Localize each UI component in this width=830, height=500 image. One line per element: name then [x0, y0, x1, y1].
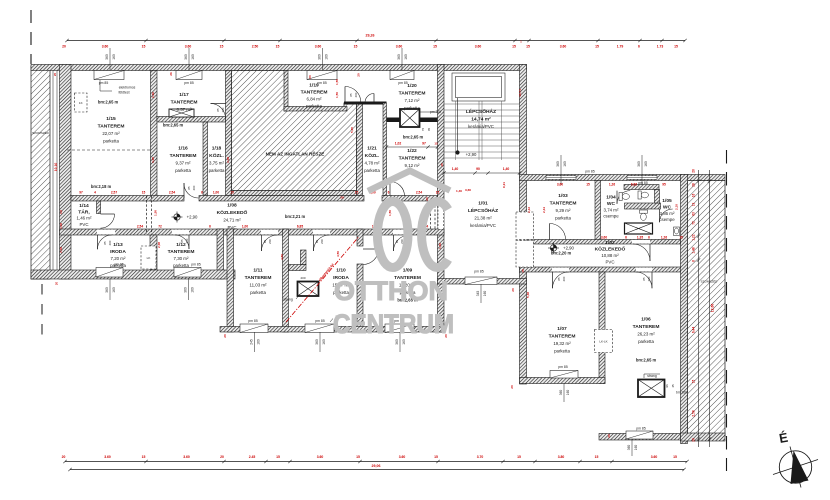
- door size label nem: [349, 92, 358, 97]
- svg-text:200: 200: [300, 276, 305, 280]
- wall 1/10 - 1/09 partition lower: [357, 264, 363, 332]
- svg-text:parketta: parketta: [555, 216, 571, 221]
- door WC 1/04: [617, 191, 630, 204]
- svg-text:CENTRUM: CENTRUM: [333, 309, 454, 339]
- dimension numbers top chain: [62, 40, 678, 49]
- svg-text:1/10: 1/10: [336, 268, 346, 274]
- window dim 1/03: [556, 155, 567, 185]
- red dims above corridor top wall: [79, 190, 439, 194]
- door size label 1/07: [557, 276, 566, 281]
- svg-text:2,58: 2,58: [692, 410, 696, 416]
- svg-text:2,10: 2,10: [675, 204, 679, 210]
- svg-text:KÖZL.: KÖZL.: [209, 152, 224, 159]
- svg-text:TANTEREM: TANTEREM: [301, 90, 328, 96]
- svg-text:3.60: 3.60: [396, 44, 403, 48]
- svg-text:LK: LK: [147, 256, 151, 260]
- svg-text:20: 20: [53, 73, 57, 77]
- door size label 1/09: [395, 239, 404, 244]
- wall stub alcove 1/10 vertical: [301, 250, 307, 265]
- svg-text:parketta: parketta: [110, 263, 126, 268]
- svg-text:1,36: 1,36: [438, 243, 442, 249]
- watermark logo O: [377, 202, 408, 268]
- svg-text:3.60: 3.60: [104, 455, 111, 459]
- svg-text:6,86: 6,86: [631, 182, 637, 186]
- property boundary line right: [726, 150, 728, 471]
- svg-text:parketta: parketta: [554, 349, 570, 354]
- svg-text:160: 160: [402, 339, 406, 345]
- door size label 1/16: [187, 185, 196, 190]
- svg-text:bm:2,65 m: bm:2,65 m: [163, 123, 184, 128]
- svg-text:1/14: 1/14: [79, 203, 89, 209]
- svg-text:160: 160: [566, 390, 570, 396]
- window 1/17 top: [176, 71, 202, 80]
- svg-text:7,12 m²: 7,12 m²: [405, 98, 420, 103]
- wall WC partition vertical: [655, 190, 660, 204]
- door size label tar: [103, 240, 112, 245]
- wall corridor 1/02 top: [527, 240, 681, 245]
- svg-text:20: 20: [425, 197, 429, 201]
- svg-text:OTTHON: OTTHON: [334, 276, 448, 306]
- svg-text:6,44: 6,44: [692, 327, 696, 333]
- svg-text:3.60: 3.60: [102, 44, 109, 48]
- svg-text:1/20: 1/20: [407, 83, 417, 89]
- svg-text:85: 85: [642, 277, 646, 281]
- assorted red dimension texts: [151, 72, 679, 438]
- window 1/12 bottom: [174, 268, 201, 278]
- svg-text:pm 85: pm 85: [474, 270, 484, 274]
- dashed line room 1/15: [67, 149, 150, 151]
- north arrow: [773, 430, 818, 488]
- svg-text:1,00: 1,00: [213, 190, 219, 194]
- svg-text:pm 200: pm 200: [430, 110, 441, 114]
- svg-text:76: 76: [421, 128, 425, 132]
- dimension chain top line: [65, 39, 686, 42]
- wall corridor 1/08 top segment c: [382, 196, 438, 202]
- window 1/07 bottom: [550, 371, 578, 379]
- svg-text:20: 20: [357, 73, 361, 77]
- svg-text:TANTEREM: TANTEREM: [549, 334, 576, 340]
- window dim 1/20: [397, 48, 408, 71]
- svg-text:360: 360: [397, 54, 401, 60]
- svg-text:85: 85: [349, 93, 353, 97]
- svg-text:elektromos: elektromos: [119, 86, 136, 90]
- room label 1/16 TANTEREM: [170, 146, 197, 174]
- svg-text:TANTEREM: TANTEREM: [399, 91, 426, 97]
- svg-text:20: 20: [308, 75, 312, 79]
- svg-text:20: 20: [62, 455, 66, 459]
- wall WC partition upper: [624, 185, 659, 190]
- wall exterior bottom middle section: [220, 327, 444, 333]
- svg-text:1/07: 1/07: [557, 326, 567, 332]
- svg-text:5,38: 5,38: [526, 292, 530, 298]
- svg-text:3.60: 3.60: [185, 44, 192, 48]
- svg-text:97: 97: [79, 190, 83, 194]
- svg-text:200: 200: [562, 276, 566, 281]
- toilet WC 1/05: [640, 210, 648, 220]
- neighbour strip left (SZOMSZED): [31, 66, 57, 279]
- svg-text:TANTEREM: TANTEREM: [170, 153, 197, 159]
- wall 1/01 stairwell bottom: [438, 279, 527, 285]
- svg-text:kerámia/PVC: kerámia/PVC: [470, 223, 496, 228]
- svg-text:1,50: 1,50: [335, 92, 339, 98]
- svg-text:9,37 m²: 9,37 m²: [176, 161, 191, 166]
- dashed box 1/15: [75, 93, 88, 112]
- svg-text:200: 200: [192, 185, 196, 190]
- room label 1/10 IRODA: [332, 268, 350, 296]
- window 1/10 bottom: [305, 324, 334, 333]
- svg-text:3,08: 3,08: [226, 157, 230, 163]
- svg-text:6: 6: [209, 225, 211, 229]
- wall 1/11 - 1/10 partition: [283, 229, 289, 332]
- svg-text:8,57 m²: 8,57 m²: [177, 107, 192, 112]
- svg-text:160: 160: [112, 54, 116, 60]
- svg-text:1/17: 1/17: [179, 92, 189, 98]
- svg-text:15: 15: [220, 44, 224, 48]
- room label 1/19 TANTEREM: [301, 83, 328, 109]
- room label 1/08 KOZLEKEDO: [217, 203, 248, 231]
- svg-text:15: 15: [434, 455, 438, 459]
- svg-text:6: 6: [625, 236, 627, 240]
- door corridor-1/12: [175, 235, 189, 249]
- wall stub 1/20-1/22 right: [420, 118, 438, 123]
- svg-text:72: 72: [158, 225, 162, 229]
- svg-text:200: 200: [354, 92, 358, 97]
- svg-text:2,54: 2,54: [416, 190, 422, 194]
- wall between 1/17 and 1/16: [157, 117, 226, 123]
- svg-text:63: 63: [692, 212, 696, 216]
- svg-text:7,20 m²: 7,20 m²: [111, 256, 126, 261]
- wall 1/13 - 1/12 partition: [150, 235, 157, 270]
- room label 1/13 IRODA: [110, 242, 126, 268]
- svg-text:1,26: 1,26: [609, 182, 615, 186]
- door opening corridor to 1/11: [261, 230, 278, 235]
- red diagonal demolition line 1/10: [286, 237, 359, 323]
- door opening WC to corridor 1/02: [632, 240, 650, 244]
- svg-text:TANTEREM: TANTEREM: [168, 249, 195, 255]
- svg-text:6: 6: [648, 236, 650, 240]
- svg-text:1/15: 1/15: [106, 116, 116, 122]
- chimney shaft 1/20-1/22: [400, 109, 420, 127]
- red dims below right wing top wall: [557, 182, 666, 186]
- svg-text:2,08: 2,08: [59, 247, 63, 253]
- door 1/22: [390, 182, 405, 197]
- wall partition 1/21 right: [383, 103, 387, 196]
- svg-text:strang: strang: [283, 298, 293, 302]
- survey mark corridor 1/02 +2,90: [548, 243, 575, 254]
- svg-text:10,10: 10,10: [54, 163, 58, 172]
- svg-text:1,40: 1,40: [456, 189, 462, 193]
- svg-text:parketta: parketta: [306, 104, 322, 109]
- door opening corridor to 1/12: [172, 230, 189, 235]
- door 1/14 TAR: [101, 214, 115, 228]
- svg-text:15: 15: [354, 44, 358, 48]
- label strang 1/10: [283, 294, 300, 302]
- svg-text:21,38 m²: 21,38 m²: [474, 216, 492, 221]
- svg-text:1.79: 1.79: [617, 44, 624, 48]
- svg-text:TANTEREM: TANTEREM: [245, 275, 272, 281]
- svg-text:15: 15: [674, 44, 678, 48]
- toilet WC 1/04 a: [619, 193, 629, 201]
- svg-text:4,78 m²: 4,78 m²: [365, 161, 380, 166]
- shaft WC: [625, 223, 653, 234]
- door WC-corridor 1/02: [633, 244, 650, 261]
- wall left exterior: [60, 65, 72, 280]
- svg-text:1,22: 1,22: [692, 234, 696, 240]
- window 1/09 bottom: [385, 324, 414, 333]
- svg-text:15: 15: [142, 44, 146, 48]
- svg-text:parketta: parketta: [175, 168, 191, 173]
- svg-text:1,40: 1,40: [452, 167, 459, 171]
- door opening corridor to 1/10: [313, 230, 330, 235]
- svg-text:pm 85: pm 85: [248, 319, 258, 323]
- svg-text:NEM AZ INGATLAN RÉSZE: NEM AZ INGATLAN RÉSZE: [266, 150, 325, 157]
- svg-text:3.60: 3.60: [399, 455, 406, 459]
- svg-text:3,60: 3,60: [465, 188, 471, 192]
- door NEM double leaf a: [345, 87, 361, 103]
- room label 1/18 KOZL: [209, 146, 225, 174]
- svg-text:pm 85: pm 85: [585, 170, 595, 174]
- svg-text:15: 15: [673, 455, 677, 459]
- svg-text:+2,90: +2,90: [187, 215, 198, 220]
- svg-text:1,00: 1,00: [242, 225, 248, 229]
- svg-text:97: 97: [422, 141, 426, 145]
- dashed demolition line corridor right: [431, 201, 436, 229]
- svg-text:6: 6: [692, 260, 696, 262]
- property boundary line left: [30, 10, 32, 64]
- dimension numbers left side: [53, 73, 63, 286]
- svg-text:bm:2,65 m: bm:2,65 m: [636, 358, 657, 363]
- svg-text:15: 15: [276, 455, 280, 459]
- svg-text:360: 360: [627, 445, 631, 451]
- door size label 1/12: [180, 238, 189, 243]
- svg-text:3,75 m²: 3,75 m²: [209, 161, 224, 166]
- window dim 1/17: [184, 48, 195, 71]
- wall right wing exterior right: [681, 175, 688, 444]
- svg-text:6: 6: [201, 190, 203, 194]
- svg-text:15: 15: [692, 380, 696, 384]
- svg-text:9,21: 9,21: [502, 182, 506, 188]
- svg-text:3,60: 3,60: [601, 236, 607, 240]
- window dim 1/06: [627, 440, 638, 456]
- svg-text:1,26: 1,26: [661, 236, 667, 240]
- svg-text:PVC: PVC: [79, 222, 88, 227]
- red dims above corridor 1/02 wall: [601, 236, 683, 240]
- svg-text:360: 360: [184, 54, 188, 60]
- door corridor-1/11: [262, 235, 278, 251]
- window dim 1/15: [105, 48, 116, 71]
- door corridor-1/13: [98, 235, 112, 249]
- svg-text:parketta: parketta: [250, 290, 266, 295]
- door opening corridor 1/02 to 1/07: [552, 268, 569, 272]
- svg-text:20: 20: [692, 438, 696, 442]
- svg-text:3,65: 3,65: [151, 157, 155, 163]
- svg-text:6,85: 6,85: [297, 225, 303, 229]
- dimension numbers right side: [692, 169, 715, 442]
- svg-text:parketta: parketta: [103, 139, 119, 144]
- dashed box LK-LK 1/07-1/06: [595, 330, 613, 353]
- svg-text:160: 160: [322, 339, 326, 345]
- door 1/10 - 1/09: [363, 249, 379, 265]
- svg-text:1/02: 1/02: [605, 240, 615, 246]
- wall stairwell right: [520, 65, 527, 385]
- room label 1/11 TANTEREM: [245, 268, 272, 296]
- svg-text:IRODA: IRODA: [110, 249, 126, 255]
- svg-text:22,07 m²: 22,07 m²: [102, 131, 120, 136]
- svg-text:1,35: 1,35: [637, 236, 643, 240]
- svg-text:pm 85: pm 85: [638, 181, 648, 185]
- svg-text:160: 160: [634, 445, 638, 451]
- hatched region NEM AZ INGATLAN RESZE: [232, 71, 357, 191]
- svg-text:WC: WC: [663, 204, 672, 210]
- svg-text:PVC: PVC: [227, 225, 236, 230]
- svg-text:19,32 m²: 19,32 m²: [553, 341, 571, 346]
- svg-text:1/04: 1/04: [606, 195, 616, 201]
- svg-text:pm 85: pm 85: [315, 319, 325, 323]
- window 1/20 top: [390, 71, 414, 80]
- room label 1/21 KOZL: [364, 146, 380, 174]
- svg-text:fűtőtest: fűtőtest: [118, 91, 129, 95]
- svg-text:360: 360: [559, 390, 563, 396]
- label radiator 1/09: [330, 315, 347, 323]
- room label 1/09 TANTEREM: [394, 268, 421, 296]
- svg-text:160: 160: [191, 287, 195, 293]
- svg-text:SZOMSZÉD: SZOMSZÉD: [32, 130, 50, 135]
- wall 1/06 bottom exterior: [599, 434, 681, 441]
- window dim 1/10: [315, 332, 326, 352]
- door opening corridor to 1/13: [97, 230, 115, 235]
- svg-text:160: 160: [483, 291, 487, 297]
- door NEM double leaf b: [365, 94, 374, 103]
- window 1/15 top: [94, 71, 124, 80]
- svg-text:160: 160: [563, 161, 567, 167]
- svg-text:1,02: 1,02: [395, 141, 402, 145]
- svg-text:2,08: 2,08: [157, 242, 161, 248]
- svg-text:6,84 m²: 6,84 m²: [307, 97, 322, 102]
- svg-text:360: 360: [105, 287, 109, 293]
- svg-text:KÖZLEKEDŐ: KÖZLEKEDŐ: [217, 209, 248, 216]
- label elektromos futotest: [100, 80, 136, 95]
- svg-text:160: 160: [325, 54, 329, 60]
- svg-text:LK-LK: LK-LK: [599, 339, 607, 343]
- door corridor-1/10: [314, 235, 330, 251]
- svg-text:1,50: 1,50: [388, 210, 392, 216]
- svg-text:2,36: 2,36: [151, 92, 155, 98]
- watermark logo roof: [368, 171, 450, 191]
- door 1/03: [550, 224, 566, 240]
- svg-text:3.60: 3.60: [183, 455, 190, 459]
- svg-text:pm 85: pm 85: [191, 263, 201, 267]
- svg-text:bm:2,65 m: bm:2,65 m: [403, 135, 424, 140]
- door corridor-1/07: [553, 272, 569, 288]
- svg-text:360: 360: [315, 339, 319, 345]
- window dim 1/12: [184, 279, 195, 300]
- wall WC partition lower: [625, 203, 661, 209]
- svg-text:16: 16: [692, 194, 696, 198]
- neighbour strip right (SZOMSZED): [688, 181, 726, 437]
- room label 1/02 KOZLEKEDO: [595, 240, 626, 265]
- door 1/17: [211, 104, 226, 119]
- svg-text:15: 15: [526, 44, 530, 48]
- toilet WC 1/04 b: [638, 191, 648, 199]
- svg-text:20: 20: [62, 44, 66, 48]
- wall neighbour strip bottom band: [681, 433, 726, 441]
- svg-text:TÁR,: TÁR,: [78, 208, 90, 215]
- svg-text:1,46 m²: 1,46 m²: [77, 216, 92, 221]
- svg-text:85: 85: [263, 240, 267, 244]
- svg-text:kerámia/PVC: kerámia/PVC: [468, 124, 494, 129]
- strang shaft 1/06: [638, 380, 665, 398]
- svg-text:1/01: 1/01: [478, 201, 488, 207]
- radiator 1/17: [169, 109, 194, 117]
- svg-text:2,54: 2,54: [169, 190, 175, 194]
- svg-text:45: 45: [427, 128, 431, 132]
- svg-text:15: 15: [595, 455, 599, 459]
- svg-text:bm:2,65 m: bm:2,65 m: [98, 100, 119, 105]
- svg-text:160: 160: [112, 287, 116, 293]
- svg-text:bm:2,18 m: bm:2,18 m: [91, 184, 112, 189]
- svg-text:20: 20: [511, 288, 515, 292]
- svg-text:45: 45: [671, 384, 675, 388]
- svg-text:9,12 m²: 9,12 m²: [405, 163, 420, 168]
- svg-text:KÖZL.: KÖZL.: [365, 152, 380, 159]
- svg-text:2.50: 2.50: [252, 44, 259, 48]
- svg-text:parketta: parketta: [404, 106, 420, 111]
- door size label 1/17: [216, 107, 225, 112]
- svg-text:1K: 1K: [79, 101, 83, 105]
- window 1/06 bottom: [626, 431, 653, 439]
- svg-text:TANTEREM: TANTEREM: [399, 156, 426, 162]
- dimension chain bottom lines: [63, 460, 688, 471]
- label 76-45 shaft 1/22: [421, 128, 431, 132]
- wall 1/11 block left: [227, 229, 234, 332]
- wall corridor 1/08 top segment a: [71, 196, 184, 202]
- svg-text:6: 6: [388, 190, 390, 194]
- wall exterior bottom left section: [31, 270, 235, 279]
- svg-text:1/08: 1/08: [227, 203, 237, 209]
- window dim 1/07: [559, 384, 570, 403]
- wall stairwell left / main wing right: [438, 65, 445, 333]
- room label 1/12 TANTEREM: [168, 242, 195, 268]
- window 1/01 bottom: [465, 277, 497, 285]
- dim line between 1/20 and 1/22: [385, 141, 439, 148]
- stairs dim line: [442, 171, 521, 174]
- wall top exterior: [31, 65, 527, 71]
- svg-text:95: 95: [662, 182, 666, 186]
- window 1/11 bottom: [240, 324, 268, 333]
- wall corridor 1/08 bottom: [60, 229, 445, 235]
- svg-text:3.60: 3.60: [315, 44, 322, 48]
- svg-text:96: 96: [665, 384, 669, 388]
- svg-text:15: 15: [433, 44, 437, 48]
- svg-text:1/09: 1/09: [403, 268, 413, 274]
- svg-text:3.60: 3.60: [475, 44, 482, 48]
- svg-text:90: 90: [476, 167, 480, 171]
- svg-text:1,50: 1,50: [154, 210, 158, 216]
- svg-text:10,88 m²: 10,88 m²: [601, 253, 619, 258]
- svg-text:1/03: 1/03: [558, 193, 568, 199]
- window WC top (in-wall glazing): [627, 176, 657, 180]
- svg-text:csempe: csempe: [603, 214, 619, 219]
- svg-text:TANTEREM: TANTEREM: [171, 100, 198, 106]
- svg-text:20: 20: [692, 169, 696, 173]
- svg-text:360: 360: [105, 54, 109, 60]
- svg-text:1/06: 1/06: [641, 317, 651, 323]
- door WC 1/05: [660, 209, 673, 222]
- svg-text:3,86 m²: 3,86 m²: [660, 211, 675, 216]
- svg-text:4,50: 4,50: [280, 254, 284, 260]
- stairs dim numbers: [440, 163, 509, 171]
- svg-text:20: 20: [223, 334, 227, 338]
